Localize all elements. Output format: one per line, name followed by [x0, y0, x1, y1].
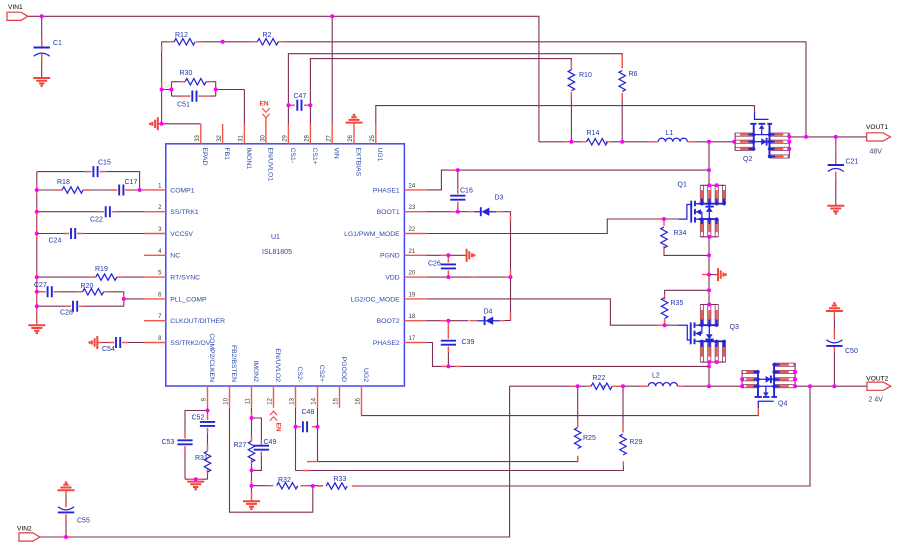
- diode D3: [474, 195, 503, 217]
- svg-text:PLL_COMP: PLL_COMP: [170, 296, 207, 303]
- svg-text:PHASE1: PHASE1: [373, 187, 400, 194]
- svg-text:PGND: PGND: [380, 253, 400, 260]
- svg-text:D4: D4: [484, 309, 493, 316]
- svg-text:Q4: Q4: [778, 401, 787, 408]
- svg-text:L2: L2: [652, 373, 660, 380]
- ground PGND sideways: [467, 249, 475, 262]
- svg-text:R18: R18: [57, 179, 70, 186]
- resistor R33: [326, 476, 347, 489]
- wire C39 branch: [447, 321, 449, 367]
- transistor Q2: [735, 112, 789, 163]
- svg-text:FB2/BSTEN: FB2/BSTEN: [230, 345, 237, 382]
- wire CS1- rail to R6: [288, 54, 622, 142]
- svg-text:VIN: VIN: [333, 148, 340, 159]
- wire FB1 rail through R12 R2: [162, 42, 806, 137]
- ground below C1: [33, 78, 50, 86]
- svg-text:R33: R33: [334, 476, 347, 483]
- svg-text:2: 2: [158, 205, 162, 211]
- ground below C21: [827, 206, 844, 214]
- svg-text:R30: R30: [180, 70, 193, 77]
- svg-text:LG1/PWM_MODE: LG1/PWM_MODE: [344, 231, 400, 238]
- resistor R6: [619, 71, 638, 92]
- capacitor C52: [192, 415, 216, 426]
- svg-text:EN: EN: [260, 101, 269, 108]
- capacitor C17: [119, 179, 137, 196]
- capacitor C22: [90, 206, 110, 223]
- wire BOOT2: [426, 320, 468, 322]
- svg-text:Q3: Q3: [730, 324, 739, 331]
- svg-text:C28: C28: [60, 310, 73, 317]
- wire C50 branch: [833, 311, 835, 386]
- svg-text:8: 8: [158, 336, 162, 342]
- wire C55 branch: [65, 490, 67, 537]
- ground above C50 inverted: [826, 303, 843, 311]
- svg-text:R12: R12: [175, 32, 188, 39]
- svg-text:1: 1: [158, 183, 162, 189]
- port VIN2: [17, 526, 40, 542]
- svg-text:24: 24: [409, 183, 416, 189]
- wire Q1 Q3 source drain chain: [708, 142, 710, 386]
- U1 bottom pin names: [208, 333, 369, 382]
- wire PHASE2: [426, 343, 709, 367]
- ground EXTBIAS inverted: [346, 114, 363, 122]
- svg-text:U1: U1: [271, 234, 280, 241]
- wire SS/TRK1 row C22: [37, 211, 146, 213]
- svg-text:R29: R29: [630, 439, 643, 446]
- wire C28 row: [37, 305, 124, 307]
- svg-text:C54: C54: [102, 346, 115, 353]
- pin stubs left pins 1-8: [144, 190, 166, 343]
- wire BOOT1 D3 VDD vertical: [426, 212, 510, 321]
- svg-text:CS1-: CS1-: [289, 148, 296, 164]
- svg-text:R25: R25: [583, 435, 596, 442]
- svg-text:VOUT1: VOUT1: [866, 124, 888, 131]
- ground above C55 inverted: [58, 482, 75, 490]
- svg-text:19: 19: [409, 292, 416, 298]
- U1 top pin names: [201, 148, 383, 182]
- svg-text:R2: R2: [263, 32, 272, 39]
- port VOUT2: [866, 376, 891, 404]
- svg-text:C16: C16: [460, 188, 473, 195]
- svg-text:C17: C17: [125, 179, 138, 186]
- net EN at pin30: [260, 101, 270, 125]
- capacitor C51: [177, 91, 197, 109]
- svg-text:C53: C53: [162, 439, 175, 446]
- svg-text:C39: C39: [462, 339, 475, 346]
- svg-text:BOOT1: BOOT1: [377, 209, 400, 216]
- capacitor C50 polarized: [826, 340, 858, 355]
- svg-text:NC: NC: [170, 253, 180, 260]
- pin stubs right pins 24-17: [404, 190, 426, 343]
- pin stubs bottom pins 9-16: [208, 386, 362, 408]
- svg-text:VDD: VDD: [385, 275, 399, 282]
- svg-text:D3: D3: [495, 195, 504, 202]
- port VIN1: [7, 4, 28, 20]
- U1 bottom pin numbers 9-16: [202, 397, 362, 404]
- wire VIN2 rail riser: [40, 386, 510, 537]
- svg-text:C48: C48: [302, 409, 315, 416]
- wire LG2 to R35 gate: [426, 299, 678, 325]
- transistor terminal dots: [700, 133, 776, 388]
- wire R29 branch: [296, 386, 624, 470]
- capacitor C15: [93, 160, 111, 178]
- resistor R20: [81, 283, 104, 295]
- svg-text:BOOT2: BOOT2: [377, 318, 400, 325]
- ground below R27 chain: [243, 501, 260, 509]
- ground left rail bottom: [28, 325, 45, 333]
- resistor R29: [620, 434, 643, 455]
- svg-text:EN: EN: [275, 423, 282, 432]
- svg-text:R27: R27: [234, 442, 247, 449]
- wire LG1 to R34 gate: [426, 219, 678, 234]
- svg-text:SS/TRK2/OV: SS/TRK2/OV: [170, 340, 211, 347]
- svg-text:C1: C1: [53, 40, 62, 47]
- svg-text:EXTBIAS: EXTBIAS: [354, 148, 361, 177]
- svg-text:ISL81805: ISL81805: [262, 249, 292, 256]
- wire VDD: [426, 276, 510, 278]
- U1 left pin names: [170, 187, 225, 347]
- resistor R30: [180, 70, 207, 85]
- resistor R35: [661, 298, 683, 319]
- capacitor C16: [450, 188, 473, 200]
- inductor L2: [648, 373, 677, 387]
- resistor R2: [257, 32, 278, 45]
- wire R12 left vertical to ground: [161, 42, 163, 124]
- svg-text:IMON1: IMON1: [245, 148, 252, 170]
- svg-text:R22: R22: [593, 375, 606, 382]
- resistor R12: [174, 32, 195, 45]
- wire R34 bottom: [664, 251, 709, 256]
- wire switch node 2 with R22 L2: [510, 385, 742, 387]
- wire VOUT2 line: [795, 385, 867, 387]
- svg-text:COMP2/CLKEN: COMP2/CLKEN: [208, 333, 215, 382]
- svg-text:18: 18: [409, 314, 416, 320]
- ground mid Q1 Q3 sideways: [718, 268, 726, 281]
- svg-text:R35: R35: [671, 300, 684, 307]
- svg-text:R32: R32: [278, 477, 291, 484]
- wire C21 branch: [835, 137, 837, 206]
- diode D4: [478, 309, 500, 326]
- resistor R27: [234, 441, 255, 462]
- svg-text:R10: R10: [579, 72, 592, 79]
- svg-text:CS2+: CS2+: [318, 365, 325, 382]
- capacitor C55 polarized: [58, 507, 90, 525]
- svg-text:C15: C15: [98, 160, 111, 167]
- wire VIN1 rail to switch drop: [28, 16, 539, 142]
- port VOUT1: [866, 124, 891, 156]
- resistor R25: [575, 428, 596, 449]
- resistor R31: [195, 451, 211, 472]
- capacitor C54: [102, 337, 120, 353]
- transistor Q3: [679, 305, 739, 363]
- svg-text:C27: C27: [34, 282, 47, 289]
- wire SS/TRK2 C54 row: [98, 342, 146, 344]
- ground below R31 C53: [187, 482, 204, 490]
- svg-text:3: 3: [158, 227, 162, 233]
- svg-text:VOUT2: VOUT2: [866, 376, 888, 383]
- wire VOUT1 line: [789, 136, 866, 138]
- svg-text:PHASE2: PHASE2: [373, 340, 400, 347]
- svg-text:EPAD: EPAD: [201, 148, 208, 166]
- svg-text:CLKOUT/DITHER: CLKOUT/DITHER: [170, 318, 225, 325]
- svg-text:C55: C55: [77, 518, 90, 525]
- capacitor C1 polarized: [34, 40, 63, 56]
- capacitor C28: [60, 301, 77, 317]
- U1 right pin numbers 24-17: [409, 183, 416, 342]
- svg-text:UG1: UG1: [376, 148, 383, 162]
- U1 left pin numbers 1-8: [158, 183, 162, 342]
- svg-text:RT/SYNC: RT/SYNC: [170, 275, 200, 282]
- svg-text:C22: C22: [90, 217, 103, 224]
- capacitor C49: [254, 439, 277, 450]
- op-amp U1 ISL81805 controller body: [166, 144, 405, 386]
- resistor R19: [95, 266, 117, 280]
- wire R32 R33 divider line: [252, 386, 811, 486]
- svg-text:5: 5: [158, 271, 162, 277]
- svg-text:CS2-: CS2-: [296, 367, 303, 383]
- resistor R32: [277, 477, 298, 489]
- wire PHASE1: [426, 170, 709, 190]
- svg-text:R20: R20: [81, 283, 94, 290]
- capacitor C48: [302, 409, 315, 432]
- wire IMON1: [216, 90, 245, 125]
- svg-text:R19: R19: [95, 266, 108, 273]
- svg-text:23: 23: [409, 205, 416, 211]
- svg-text:C50: C50: [845, 348, 858, 355]
- wire VIN pin27 riser: [331, 16, 333, 124]
- svg-text:SS/TRK1: SS/TRK1: [170, 209, 199, 216]
- svg-text:EN/UVLO2: EN/UVLO2: [274, 348, 281, 382]
- wire R30 C51 box: [162, 82, 216, 96]
- svg-text:C52: C52: [192, 415, 205, 422]
- svg-text:VCC5V: VCC5V: [170, 231, 193, 238]
- wire COMP2 C52 C53 R31 chain: [185, 408, 208, 479]
- net EN at pin12: [270, 411, 282, 432]
- capacitor C39: [441, 339, 475, 346]
- transistor Q1: [678, 182, 726, 237]
- svg-text:C49: C49: [264, 439, 277, 446]
- wire R25 branch: [318, 386, 578, 461]
- wire C47 taps: [288, 104, 310, 106]
- svg-text:R6: R6: [629, 71, 638, 78]
- svg-text:COMP1: COMP1: [170, 187, 194, 194]
- svg-text:C24: C24: [49, 238, 62, 245]
- svg-text:17: 17: [409, 336, 416, 342]
- wire CS2+ riser: [317, 408, 319, 462]
- svg-text:R31: R31: [195, 455, 208, 462]
- svg-text:7: 7: [158, 314, 162, 320]
- svg-text:22: 22: [409, 227, 416, 233]
- svg-text:VIN2: VIN2: [17, 526, 32, 533]
- svg-text:4: 4: [158, 249, 162, 255]
- wire switch node 1 with R14 L1: [539, 141, 734, 143]
- resistor R10: [568, 70, 592, 91]
- svg-text:20: 20: [409, 271, 416, 277]
- ground EPAD sideways: [149, 117, 157, 130]
- wire FB2 loop: [230, 408, 313, 512]
- capacitor C21 polarized: [828, 159, 859, 172]
- wire C15 branch: [37, 172, 140, 190]
- svg-text:Q2: Q2: [743, 156, 752, 163]
- svg-text:2 4V: 2 4V: [869, 397, 884, 404]
- svg-text:6: 6: [158, 292, 162, 298]
- wire CS1+ rail to R10: [310, 59, 571, 142]
- wire mid ground tap: [709, 274, 718, 276]
- svg-text:L1: L1: [666, 130, 674, 137]
- wire left rail: [36, 172, 38, 325]
- svg-text:C51: C51: [177, 102, 190, 109]
- wire COMP1 row R18 C17: [37, 189, 146, 191]
- svg-text:R34: R34: [674, 230, 687, 237]
- svg-text:PGOOD: PGOOD: [340, 357, 347, 382]
- svg-text:VIN1: VIN1: [8, 4, 23, 11]
- wire RT/SYNC row R19: [37, 276, 146, 278]
- svg-text:Q1: Q1: [678, 182, 687, 189]
- svg-text:EN/UVLO1: EN/UVLO1: [267, 148, 274, 182]
- U1 top pin numbers 33-25: [195, 134, 376, 141]
- component lead pads red: [162, 42, 309, 105]
- capacitor C53: [162, 439, 193, 446]
- wire C1 branch: [41, 16, 43, 77]
- U1 right pin names: [344, 187, 400, 347]
- wire PGND C26: [426, 255, 466, 277]
- resistor R22: [591, 375, 612, 389]
- svg-text:R14: R14: [587, 130, 600, 137]
- resistor R34: [661, 227, 687, 248]
- svg-text:UG2: UG2: [362, 368, 369, 382]
- resistor R14: [587, 130, 608, 145]
- svg-text:C47: C47: [294, 93, 307, 100]
- transistor Q4: [742, 363, 795, 408]
- svg-text:LG2/OC_MODE: LG2/OC_MODE: [351, 296, 401, 303]
- svg-text:FB1: FB1: [223, 148, 230, 161]
- wire PLL C27 R20 row: [37, 292, 146, 306]
- svg-text:C21: C21: [846, 159, 859, 166]
- wire C16 branch: [457, 170, 459, 212]
- wire VCC5V row C24: [37, 233, 146, 235]
- capacitor C47: [294, 93, 307, 111]
- wire UG2 to Q4 gate: [362, 408, 759, 416]
- wire R35 top: [665, 290, 709, 294]
- svg-text:21: 21: [409, 249, 416, 255]
- svg-text:CS1+: CS1+: [311, 148, 318, 165]
- wire UG1 to Q2 gate: [376, 106, 755, 124]
- svg-text:IMON2: IMON2: [252, 360, 259, 382]
- wire EPAD ground line: [158, 123, 201, 125]
- capacitor C26: [428, 261, 456, 269]
- capacitor C24: [49, 228, 76, 245]
- capacitor C27: [34, 282, 52, 297]
- wire CS2- riser: [295, 408, 297, 471]
- wire IMON2 chain: [252, 408, 262, 501]
- inductor L1: [658, 130, 687, 142]
- pin stubs top pins 33-25: [201, 122, 376, 144]
- wire C48 taps: [296, 426, 318, 428]
- svg-text:C26: C26: [428, 261, 441, 268]
- ground C54 sideways: [89, 336, 97, 349]
- resistor R18: [57, 179, 83, 193]
- svg-text:48V: 48V: [870, 149, 883, 156]
